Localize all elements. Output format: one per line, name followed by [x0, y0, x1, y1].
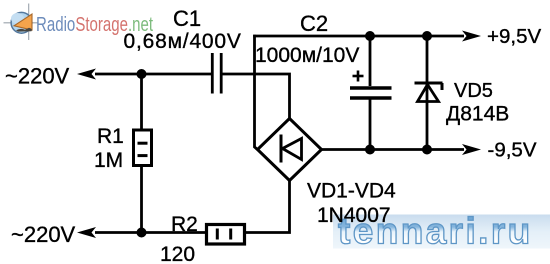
- svg-text:~220V: ~220V: [5, 64, 70, 89]
- wire: bottom AC line left segment (to R2): [95, 231, 207, 234]
- logo text RadioStorage.net: [36, 13, 153, 36]
- svg-text:1000м/10V: 1000м/10V: [255, 44, 359, 67]
- svg-text:Storage: Storage: [75, 13, 128, 36]
- terminal arrow -9,5V: [462, 144, 481, 155]
- capacitor C2 electrolytic: [350, 36, 392, 150]
- watermark tennari.ru box: [333, 211, 550, 252]
- resistor R2: [207, 225, 245, 245]
- zener diode VD5: [415, 36, 443, 150]
- svg-text:C2: C2: [300, 11, 328, 36]
- capacitor C1: [212, 53, 221, 94]
- node F junction (VD5 bottom): [422, 145, 432, 155]
- wire: top AC line left segment (to C1): [95, 73, 211, 76]
- wire: -9.5V rail: [322, 148, 465, 151]
- svg-text:120: 120: [160, 243, 195, 264]
- svg-text:-9,5V: -9,5V: [488, 139, 537, 162]
- node D junction (VD5 top): [422, 31, 432, 41]
- node A junction (R1 top): [137, 69, 147, 79]
- svg-text:R2: R2: [171, 213, 198, 236]
- svg-text:VD1-VD4: VD1-VD4: [307, 180, 396, 203]
- svg-text:Д814В: Д814В: [446, 103, 509, 126]
- svg-text:R1: R1: [97, 125, 124, 148]
- terminal arrow ~220V top: [77, 69, 96, 80]
- wire: bridge plus output up to +rail: [255, 35, 258, 150]
- node B junction (R1 bottom): [137, 228, 147, 238]
- svg-text:C1: C1: [173, 6, 201, 31]
- wire: +9.5V rail: [253, 35, 464, 38]
- node E junction (C2 bottom): [365, 145, 375, 155]
- resistor R1: [134, 74, 152, 233]
- wire: C1 to bridge top corner: [223, 74, 290, 119]
- svg-text:1N4007: 1N4007: [317, 204, 391, 227]
- svg-text:0,68м/400V: 0,68м/400V: [124, 30, 242, 53]
- svg-text:~220V: ~220V: [11, 222, 76, 247]
- node C junction (C2 top): [365, 31, 375, 41]
- terminal arrow +9,5V: [462, 31, 481, 42]
- svg-text:VD5: VD5: [454, 80, 493, 102]
- svg-text:+9,5V: +9,5V: [487, 25, 541, 48]
- bridge rectifier VD1-VD4 diamond: [258, 119, 322, 181]
- svg-text:1M: 1M: [94, 149, 123, 172]
- svg-text:Radio: Radio: [36, 13, 75, 36]
- terminal arrow ~220V bottom: [77, 227, 96, 238]
- logo RadioStorage.net icon: [4, 4, 39, 41]
- wire: R2 to bridge bottom corner: [245, 181, 290, 233]
